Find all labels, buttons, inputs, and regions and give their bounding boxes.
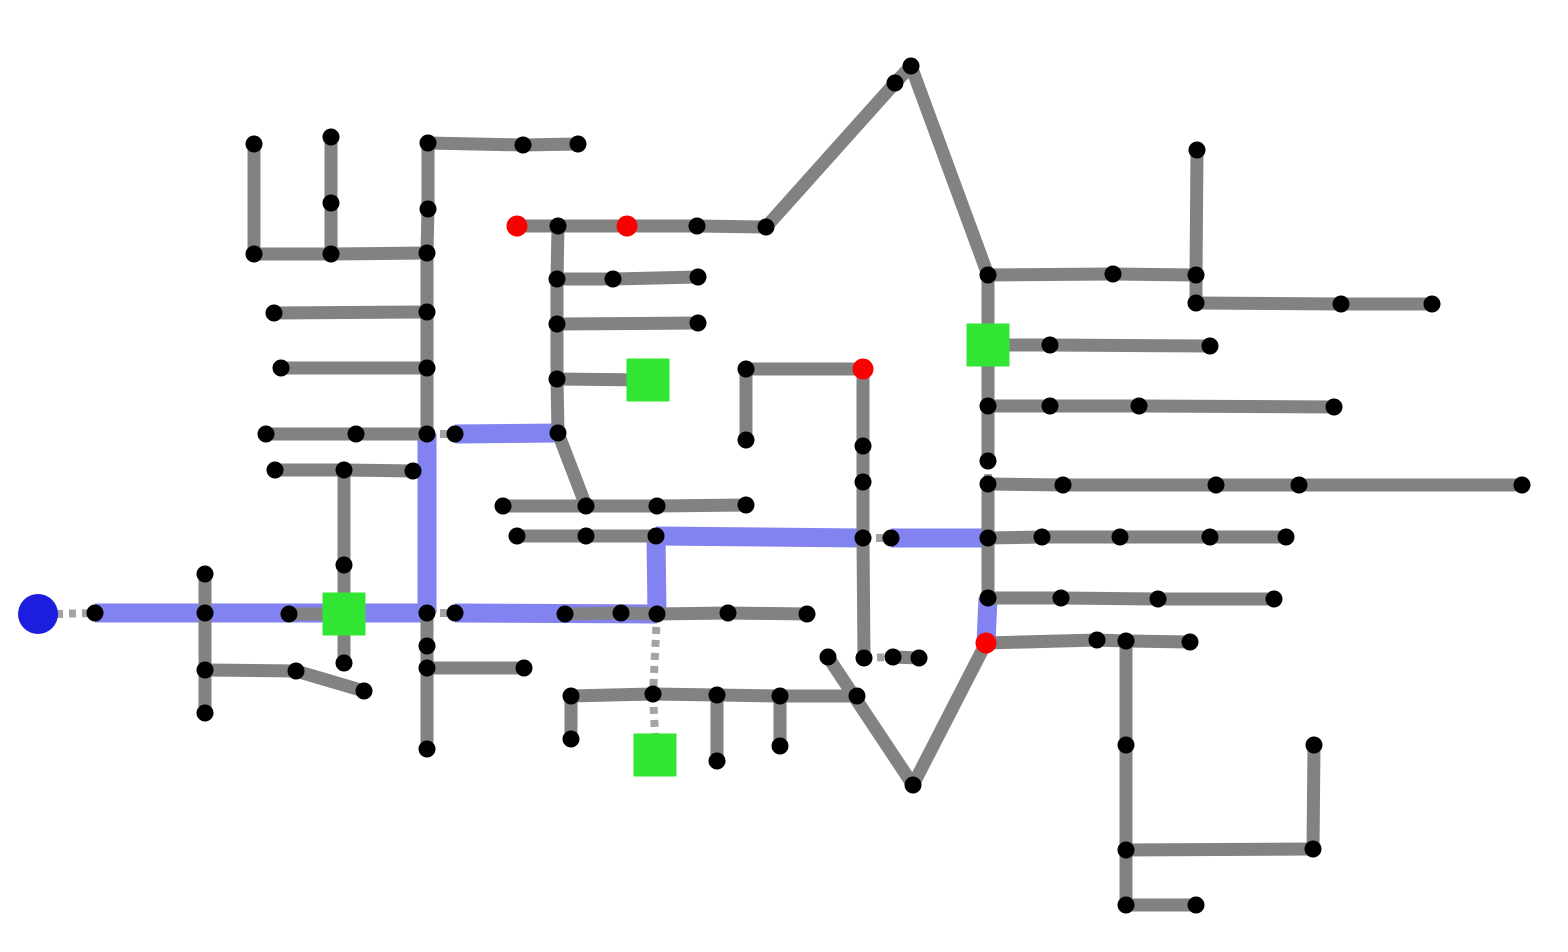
wire v col-428 upper — [422, 143, 435, 209]
node bus-108 — [1266, 591, 1283, 608]
node bus-16 — [515, 137, 532, 154]
wire v col-571 — [565, 696, 578, 739]
open switch col-988 — [984, 461, 992, 484]
wire row-434 b — [356, 428, 427, 441]
wire v col-427 b — [421, 312, 434, 368]
node bus-10 — [419, 360, 436, 377]
node bus-96 — [1055, 477, 1072, 494]
node bus-1 — [246, 136, 263, 153]
node bus-59 — [509, 528, 526, 545]
wire v col-331 upper — [325, 137, 338, 203]
wire row-279 b — [613, 277, 698, 279]
node bus-99 — [1514, 477, 1531, 494]
wire row-279 a — [557, 273, 613, 286]
wire row-670 — [205, 670, 296, 671]
node bus-8 — [419, 245, 436, 262]
wire row-598 c — [1158, 593, 1274, 606]
node bus-74 — [645, 686, 662, 703]
wire v col-1197 a — [1196, 150, 1197, 275]
node bus-43 — [516, 660, 533, 677]
wire row-324 — [557, 323, 698, 324]
wire row-613 stub to green sq — [289, 608, 344, 621]
wire blue feeder path segment 6 — [656, 536, 863, 538]
wire v col-1126 b — [1120, 745, 1133, 850]
node bus-87 — [1424, 296, 1441, 313]
wire row-368 — [281, 362, 427, 375]
wire v col-988 b — [982, 345, 995, 406]
wire v col-427 low b — [421, 646, 434, 668]
node bus-84 — [1189, 142, 1206, 159]
node bus-72 — [905, 777, 922, 794]
node bus-46 — [758, 219, 775, 236]
node bus-58 — [738, 497, 755, 514]
wire row-485 c — [1216, 479, 1299, 492]
wire row-226 c — [627, 220, 697, 233]
wire v col-557 a — [557, 226, 558, 279]
node bus-100 — [980, 530, 997, 547]
node bus-101 — [1034, 529, 1051, 546]
wire row-485 b — [1063, 479, 1216, 492]
wire v col-427 c — [421, 368, 434, 434]
node bus-42 — [356, 683, 373, 700]
wire v col-428 lower — [427, 209, 428, 253]
wire row-613 a — [565, 613, 621, 614]
node bus-104 — [1278, 529, 1295, 546]
node bus-35 — [447, 605, 464, 622]
node bus-73 — [563, 688, 580, 705]
wire row-506 b — [586, 500, 657, 513]
wire row-226 d — [697, 226, 766, 227]
wire row-613 b — [621, 613, 657, 614]
node bus-18 — [266, 305, 283, 322]
node bus-62 — [738, 361, 755, 378]
wire row-695 c — [717, 695, 780, 696]
wire row-641 b — [1097, 640, 1126, 641]
wire row-695 b — [653, 694, 717, 695]
wire diagonal down-right — [911, 66, 988, 275]
node bus-76 — [772, 688, 789, 705]
node bus-93 — [1326, 399, 1343, 416]
node bus-61 — [648, 528, 665, 545]
node bus-47 — [887, 75, 904, 92]
wire v col-746 — [740, 369, 753, 440]
node bus-33 — [87, 605, 104, 622]
node bus-92 — [1131, 398, 1148, 415]
red node 1 — [507, 216, 528, 237]
wire blue feeder path segment 1 — [95, 604, 427, 623]
node bus-67 — [856, 650, 873, 667]
node bus-97 — [1208, 477, 1225, 494]
node bus-88 — [1042, 337, 1059, 354]
node bus-17 — [570, 136, 587, 153]
green substation square 1 — [323, 593, 366, 636]
node bus-15 — [419, 741, 436, 758]
node bus-80 — [772, 738, 789, 755]
node bus-7 — [420, 201, 437, 218]
wire v col-331 lower — [325, 203, 338, 254]
wire v col-557 d — [557, 379, 558, 433]
wire row-536 b — [586, 530, 656, 543]
wire row-538 a — [988, 537, 1042, 538]
wire v col-1126 a — [1120, 641, 1133, 745]
wire v col-988 d — [982, 484, 995, 538]
node bus-114 — [1118, 897, 1135, 914]
wire v col-863 b — [857, 446, 870, 482]
wire v col-344 a — [338, 470, 351, 565]
node bus-83 — [1188, 267, 1205, 284]
node bus-29 — [197, 566, 214, 583]
wire row-275 b — [1113, 274, 1196, 275]
node bus-55 — [495, 498, 512, 515]
wire row-506 a — [503, 500, 586, 513]
node bus-39 — [720, 605, 737, 622]
wire V left diagonal — [828, 657, 913, 785]
wire v col-344 b — [338, 565, 351, 614]
node bus-91 — [1042, 398, 1059, 415]
node bus-38 — [649, 606, 666, 623]
wire v col-557 c — [551, 324, 564, 379]
node bus-52 — [549, 316, 566, 333]
node bus-95 — [980, 476, 997, 493]
node bus-111 — [1182, 634, 1199, 651]
node bus-22 — [447, 426, 464, 443]
wire blue feeder path segment 7 — [891, 529, 988, 548]
wire v col-863 a — [857, 369, 870, 446]
wire blue feeder path segment 5 — [656, 536, 657, 614]
node bus-49 — [549, 271, 566, 288]
node bus-68 — [883, 530, 900, 547]
wire row-641 a — [986, 640, 1097, 643]
node bus-56 — [578, 498, 595, 515]
wire row-144 b — [523, 144, 578, 145]
wire row-345 a — [988, 339, 1050, 352]
wire diagonal up-left — [766, 83, 895, 227]
node bus-25 — [336, 462, 353, 479]
node bus-75 — [709, 687, 726, 704]
wire row-506 c — [657, 505, 746, 506]
node bus-50 — [605, 271, 622, 288]
node bus-32 — [197, 705, 214, 722]
wire v col-1313 — [1313, 745, 1314, 849]
wire v col-205 c — [199, 670, 212, 713]
node bus-5 — [323, 246, 340, 263]
wire row-538 b — [1042, 531, 1120, 544]
node bus-19 — [273, 360, 290, 377]
wire row-406 c — [1139, 406, 1334, 407]
wire v col-344 c — [338, 614, 351, 663]
wire blue feeder path segment 4 — [455, 613, 657, 614]
node bus-78 — [563, 731, 580, 748]
wire v col-780 — [774, 696, 787, 746]
node bus-107 — [1150, 591, 1167, 608]
wire row-536 a — [517, 530, 586, 543]
wire v col-1126 c — [1120, 850, 1133, 905]
node bus-3 — [323, 129, 340, 146]
node bus-14 — [419, 660, 436, 677]
node external grid source (blue circle) — [18, 594, 58, 634]
node bus-57 — [649, 498, 666, 515]
open switch to green sq 3 — [653, 694, 655, 734]
node bus-48 — [903, 58, 920, 75]
wire V right diagonal — [913, 643, 986, 785]
node bus-30 — [197, 605, 214, 622]
node bus-28 — [336, 655, 353, 672]
node bus-65 — [855, 474, 872, 491]
wire row-470 b — [344, 470, 413, 471]
node bus-77 — [849, 688, 866, 705]
open switch row-434 — [427, 430, 455, 438]
node bus-89 — [1202, 338, 1219, 355]
node bus-6 — [420, 135, 437, 152]
wire row-406 b — [1050, 400, 1139, 413]
wire v col-557 b — [551, 279, 564, 324]
wire row-226 a — [517, 220, 558, 233]
wire v col-988 e — [982, 538, 995, 598]
node bus-2 — [246, 246, 263, 263]
node bus-110 — [1118, 633, 1135, 650]
wire row-304 b — [1341, 298, 1432, 311]
node bus-45 — [689, 218, 706, 235]
wire v col-205 b — [199, 613, 212, 670]
wire v col-254 — [248, 144, 261, 254]
node bus-115 — [1188, 897, 1205, 914]
node bus-44 — [550, 218, 567, 235]
node bus-60 — [578, 528, 595, 545]
green substation square 4 — [967, 324, 1010, 367]
node bus-54 — [549, 371, 566, 388]
wire v col-205 a — [199, 574, 212, 613]
node bus-51 — [690, 269, 707, 286]
wire v col-717 — [711, 695, 724, 761]
wire row-850 — [1126, 849, 1313, 850]
wire diagonal row-670 tail — [296, 671, 364, 691]
node bus-112 — [1118, 737, 1135, 754]
wire row-695 a — [571, 694, 653, 696]
node bus-98 — [1291, 477, 1308, 494]
red node 4 — [976, 633, 997, 654]
node bus-94 — [980, 453, 997, 470]
wire v col-863 d — [863, 538, 864, 658]
wire row-406 a — [988, 400, 1050, 413]
open switch row-613 — [427, 609, 455, 617]
node bus-11 — [419, 426, 436, 443]
open switch row-538 — [863, 534, 891, 542]
node bus-63 — [738, 432, 755, 449]
node bus-41 — [288, 663, 305, 680]
node bus-21 — [348, 426, 365, 443]
wire peak — [895, 66, 911, 83]
node bus-37 — [613, 605, 630, 622]
node bus-27 — [336, 557, 353, 574]
node bus-113 — [1118, 842, 1135, 859]
node bus-117 — [1306, 737, 1323, 754]
open switch row-658 — [864, 657, 893, 658]
wire v col-427 low a — [421, 613, 434, 646]
wire diagonal to row-506 — [558, 433, 586, 506]
wire row-313 — [274, 312, 427, 313]
node bus-23 — [550, 425, 567, 442]
node bus-24 — [267, 462, 284, 479]
wire row-304 a — [1196, 303, 1341, 304]
node bus-81 — [980, 267, 997, 284]
wire v col-427 a — [421, 253, 434, 312]
wire row-254 a — [254, 248, 331, 261]
node bus-40 — [799, 606, 816, 623]
node bus-71 — [820, 649, 837, 666]
wire v col-988 c — [982, 406, 995, 461]
wire row-254 b — [331, 253, 427, 254]
node bus-36 — [557, 606, 574, 623]
wire row-379 to green sq — [557, 379, 648, 380]
node bus-20 — [258, 426, 275, 443]
node bus-103 — [1202, 529, 1219, 546]
wire row-369 — [746, 363, 863, 376]
wire row-275 a — [988, 274, 1113, 275]
wire row-434 a — [266, 428, 356, 441]
wire row-905 — [1126, 899, 1196, 912]
wire row-538 d — [1210, 531, 1286, 544]
node bus-26 — [405, 463, 422, 480]
wire row-538 c — [1120, 531, 1210, 544]
node bus-86 — [1333, 296, 1350, 313]
wire row-613 d — [728, 613, 807, 614]
node bus-66 — [855, 530, 872, 547]
node bus-85 — [1188, 295, 1205, 312]
wire blue feeder path segment 8 — [986, 598, 988, 643]
node bus-31 — [197, 662, 214, 679]
wire row-641 c — [1126, 641, 1190, 642]
node bus-12 — [419, 605, 436, 622]
wire row-695 d — [780, 690, 857, 703]
green substation square 3 — [634, 734, 677, 777]
node bus-13 — [419, 638, 436, 655]
node bus-90 — [980, 398, 997, 415]
node bus-116 — [1305, 841, 1322, 858]
wire row-658 — [893, 657, 919, 658]
red node 3 — [853, 359, 874, 380]
wire v col-863 c — [857, 482, 870, 538]
wire row-485 d — [1299, 479, 1522, 492]
node bus-70 — [911, 650, 928, 667]
node bus-105 — [980, 590, 997, 607]
wire row-345 b — [1050, 345, 1210, 346]
node bus-34 — [281, 606, 298, 623]
wire row-485 a — [988, 484, 1063, 485]
node bus-106 — [1053, 590, 1070, 607]
wire blue feeder path segment 3 — [455, 433, 558, 434]
node bus-9 — [419, 304, 436, 321]
wire row-598 a — [988, 592, 1061, 605]
wire blue feeder path segment 2 — [418, 434, 437, 613]
node bus-69 — [885, 649, 902, 666]
wire v col-427 low c — [421, 668, 434, 749]
node bus-64 — [855, 438, 872, 455]
wire row-470 a — [275, 464, 344, 477]
wire v col-988 a — [982, 275, 995, 345]
node bus-102 — [1112, 529, 1129, 546]
open switch at source — [56, 613, 95, 614]
wire row-226 b — [558, 220, 627, 233]
wire row-598 b — [1061, 598, 1158, 599]
node bus-82 — [1105, 266, 1122, 283]
node bus-53 — [690, 315, 707, 332]
wire row-144 a — [428, 143, 523, 145]
node bus-109 — [1089, 632, 1106, 649]
red node 2 — [617, 216, 638, 237]
node bus-4 — [323, 195, 340, 212]
green substation square 2 — [627, 359, 670, 402]
wire v col-1197 b — [1190, 275, 1203, 303]
open switch vertical long — [653, 614, 657, 694]
node bus-79 — [709, 753, 726, 770]
wire row-613 c — [657, 613, 728, 614]
wire row-668 — [427, 662, 524, 675]
